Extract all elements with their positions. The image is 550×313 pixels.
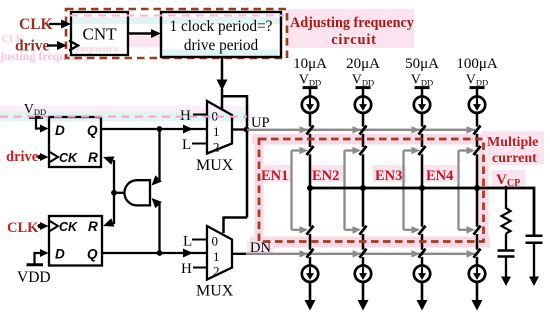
arrowhead into CK FF2 xyxy=(40,222,49,230)
VDD supply bar branch4 xyxy=(470,86,485,89)
arrowhead EN1 lower switch xyxy=(300,226,309,234)
arrowhead UP to switch branch3 xyxy=(412,126,421,134)
wire select horizontal xyxy=(221,95,247,98)
current sink I4 arrow xyxy=(476,267,478,273)
wire C1 to ground xyxy=(505,257,507,278)
wire between lower switches branch4 xyxy=(476,234,479,250)
arrowhead UP to switch branch1 xyxy=(300,126,309,134)
arrowhead into AND bottom input xyxy=(152,198,162,208)
wire select to MUX2 horizontal xyxy=(224,216,248,219)
counter CNT box xyxy=(71,12,128,55)
switch EN-upper branch2 (slash) xyxy=(360,146,367,155)
wire VCP to capacitor C2 xyxy=(533,235,535,237)
wire CLK to CK FF2 xyxy=(38,225,41,227)
wire between switches branch4 xyxy=(476,134,479,147)
EN3 lower horizontal (gray) xyxy=(404,229,414,231)
junction bus branch4 xyxy=(474,185,480,191)
current sink I2 bottom (circle) xyxy=(355,266,371,282)
arrowhead into R FF2 xyxy=(103,218,114,226)
EN4 control line vertical (gray) xyxy=(457,151,459,230)
arrowhead EN1 upper switch xyxy=(300,147,309,154)
wire DN switch to sink branch2 xyxy=(362,257,365,266)
output bus to VCP xyxy=(309,187,534,190)
arrowhead drive xyxy=(57,41,67,50)
EN3 upper horizontal (gray) xyxy=(404,149,414,151)
wire H to MUX2 in2 xyxy=(193,267,207,269)
FF2 clock wedge xyxy=(49,221,58,232)
current sink I4 bottom (circle) xyxy=(469,266,485,282)
wire source to UP switch branch1 xyxy=(309,113,312,127)
wire drive to CNT xyxy=(47,44,58,46)
arrowhead CLK into CNT xyxy=(61,20,71,29)
flip-flop FF2 box xyxy=(49,216,102,266)
current source I2 arrow xyxy=(362,98,364,104)
EN2 control line vertical (gray) xyxy=(343,151,345,230)
wire drive to CK FF1 xyxy=(38,156,41,158)
switch DN branch4 (slash) xyxy=(474,249,481,258)
wire bar to source branch1 xyxy=(309,88,312,97)
current source I1 arrow xyxy=(309,98,311,104)
wire between switches branch1 xyxy=(309,134,312,147)
junction Q2 xyxy=(157,250,163,256)
ground arrow branch4 xyxy=(472,300,483,311)
DN control line (gray) xyxy=(246,253,475,255)
current source I2 top (circle) xyxy=(355,97,371,113)
wire L to MUX1 in2 xyxy=(192,143,207,145)
VDD supply bar FF2 xyxy=(27,263,44,266)
junction Q1 xyxy=(157,126,163,132)
wire select down from comparator xyxy=(221,57,224,81)
EN1 lower horizontal (gray) xyxy=(292,229,302,231)
VDD supply bar branch3 xyxy=(415,86,430,89)
wire EN switch to bus branch1 xyxy=(309,154,312,188)
capacitor C2 plates xyxy=(526,234,543,237)
wire DN switch to sink branch1 xyxy=(309,257,312,266)
wire EN switch to bus branch4 xyxy=(476,154,479,188)
comparator box (1 clock period = drive period) xyxy=(161,12,281,57)
ground arrow C2 xyxy=(529,277,539,287)
wire source to UP switch branch3 xyxy=(421,113,424,127)
wire DN switch to sink branch3 xyxy=(421,257,424,266)
VDD supply bar FF1 xyxy=(29,116,43,119)
ground arrow branch2 xyxy=(358,300,369,311)
wire sink to ground branch4 xyxy=(476,282,479,301)
wire source to UP switch branch2 xyxy=(362,113,365,127)
wire EN switch to bus branch3 xyxy=(421,154,424,188)
switch DN branch2 (slash) xyxy=(360,249,367,258)
wire select into MUX1 top xyxy=(221,89,224,111)
arrowhead DN to switch branch3 xyxy=(412,250,421,258)
arrowhead UP to switch branch2 xyxy=(353,126,362,134)
wire between lower switches branch2 xyxy=(362,234,365,250)
wire MUX1 output UP xyxy=(232,128,248,130)
wire DN switch to sink branch4 xyxy=(476,257,479,266)
wire Q1 to MUX1 input1 xyxy=(101,128,207,130)
arrowhead into D FF1 xyxy=(40,125,49,133)
junction AND output / reset line xyxy=(111,190,117,196)
wire EN switch to bus branch2 xyxy=(362,154,365,188)
wire Q2 up to AND input xyxy=(158,202,160,253)
arrowhead DN to switch branch4 xyxy=(467,250,476,258)
wire VDD to D of FF2 xyxy=(35,253,42,265)
wire bus to EN-lower switch branch2 xyxy=(362,188,365,227)
current sink I1 arrow xyxy=(309,267,311,273)
resistor R1 (loop filter) xyxy=(502,208,511,234)
switch UP branch4 (slash) xyxy=(474,126,481,135)
switch UP branch3 (slash) xyxy=(419,126,426,135)
EN2 lower horizontal (gray) xyxy=(345,229,355,231)
EN3 control line vertical (gray) xyxy=(402,151,404,230)
wire bus to EN-lower switch branch4 xyxy=(476,188,479,227)
wire bar to source branch2 xyxy=(362,88,365,97)
wire MUX2 output DN xyxy=(232,253,247,255)
wire H to MUX1 in0 xyxy=(193,114,207,116)
wire L to MUX2 in0 xyxy=(192,239,207,241)
arrowhead DN to switch branch1 xyxy=(300,250,309,258)
arrowhead into D FF2 xyxy=(40,249,49,257)
junction bus branch2 xyxy=(360,185,366,191)
arrowhead into AND top input xyxy=(152,175,162,185)
EN4 upper horizontal (gray) xyxy=(459,149,469,151)
arrowhead into comparator xyxy=(151,29,161,38)
adjusting frequency circuit dashed box xyxy=(66,9,287,58)
wire between lower switches branch3 xyxy=(421,234,424,250)
wire CLK to CNT xyxy=(49,23,62,25)
junction drive xyxy=(37,155,41,159)
current source I4 arrow xyxy=(476,98,478,104)
switch DN branch1 (slash) xyxy=(307,249,314,258)
VDD supply bar branch2 xyxy=(356,86,371,89)
switch EN-upper branch4 (slash) xyxy=(474,146,481,155)
arrowhead into R FF1 xyxy=(103,156,114,164)
wire select vertical to MUX2 xyxy=(246,95,249,218)
mux MUX1 body xyxy=(207,101,232,154)
ground arrow branch3 xyxy=(417,300,428,311)
wire sink to ground branch1 xyxy=(309,282,312,301)
EN1 upper horizontal (gray) xyxy=(292,149,302,151)
switch UP branch2 (slash) xyxy=(360,126,367,135)
switch EN-upper branch3 (slash) xyxy=(419,146,426,155)
switch EN-lower branch1 (slash) xyxy=(307,226,314,235)
EN2 upper horizontal (gray) xyxy=(345,149,355,151)
junction CLK xyxy=(37,224,41,228)
switch EN-lower branch3 (slash) xyxy=(419,226,426,235)
switch UP branch1 (slash) xyxy=(307,126,314,135)
current sink I3 arrow xyxy=(421,267,423,273)
wire bar to source branch4 xyxy=(476,88,479,97)
EN1 control line vertical (gray) xyxy=(290,151,292,230)
mux MUX2 body xyxy=(207,226,232,280)
junction bus filter tap xyxy=(504,186,508,190)
switch EN-lower branch2 (slash) xyxy=(360,226,367,235)
arrowhead EN4 lower switch xyxy=(467,226,476,234)
switch EN-upper branch1 (slash) xyxy=(307,146,314,155)
arrowhead EN2 upper switch xyxy=(353,147,362,154)
VDD supply bar branch1 xyxy=(303,86,318,89)
arrowhead UP to switch branch4 xyxy=(467,126,476,134)
current source I3 top (circle) xyxy=(414,97,430,113)
wire between switches branch3 xyxy=(421,134,424,147)
wire between switches branch2 xyxy=(362,134,365,147)
current source I3 arrow xyxy=(421,98,423,104)
flip-flop FF1 box xyxy=(49,117,101,167)
AND gate U1 xyxy=(124,180,150,205)
arrowhead Q1 to MUX1 xyxy=(183,125,193,134)
ground arrow branch1 xyxy=(305,300,316,311)
current source I1 top (circle) xyxy=(302,97,318,113)
arrowhead EN3 upper switch xyxy=(412,147,421,154)
wire VDD to D of FF1 xyxy=(36,118,41,129)
multiple current dashed box xyxy=(259,139,484,242)
arrowhead select down xyxy=(217,80,228,91)
wire sink to ground branch3 xyxy=(421,282,424,301)
reset line vertical xyxy=(113,160,115,224)
current source I4 top (circle) xyxy=(469,97,485,113)
wire bus to EN-lower switch branch1 xyxy=(309,188,312,227)
arrowhead into CK FF1 xyxy=(40,153,49,161)
junction bus branch3 xyxy=(419,185,425,191)
EN4 lower horizontal (gray) xyxy=(459,229,469,231)
wire select into MUX2 top xyxy=(222,217,225,234)
junction bus branch1 xyxy=(307,185,313,191)
wire sink to ground branch2 xyxy=(362,282,365,301)
wire AND output xyxy=(114,192,124,194)
chevron drive into CNT xyxy=(69,41,78,51)
wire between lower switches branch1 xyxy=(309,234,312,250)
arrowhead Q2 to MUX2 xyxy=(183,249,193,258)
wire Q2 to MUX2 input1 xyxy=(102,252,207,254)
UP control line (gray) xyxy=(247,129,475,131)
wire VCP to resistor xyxy=(505,188,507,209)
switch DN branch3 (slash) xyxy=(419,249,426,258)
arrowhead EN2 lower switch xyxy=(353,226,362,234)
ground arrow C1 xyxy=(501,277,511,287)
wire Q1 down to AND input xyxy=(158,129,160,181)
wire source to UP switch branch4 xyxy=(476,113,479,127)
wire VCP corner down xyxy=(533,187,536,236)
arrowhead EN3 lower switch xyxy=(412,226,421,234)
wire CNT to comparator xyxy=(128,32,152,34)
wire resistor to capacitor C1 xyxy=(505,234,507,251)
wire C2 to ground xyxy=(533,243,535,277)
current sink I3 bottom (circle) xyxy=(414,266,430,282)
capacitor C1 plates xyxy=(498,249,515,252)
wire bus to EN-lower switch branch3 xyxy=(421,188,424,227)
arrowhead EN4 upper switch xyxy=(467,147,476,154)
current sink I2 arrow xyxy=(362,267,364,273)
junction select/UP xyxy=(244,127,250,133)
wire bar to source branch3 xyxy=(421,88,424,97)
arrowhead DN to switch branch2 xyxy=(353,250,362,258)
FF1 clock wedge xyxy=(49,152,58,163)
current sink I1 bottom (circle) xyxy=(302,266,318,282)
switch EN-lower branch4 (slash) xyxy=(474,226,481,235)
